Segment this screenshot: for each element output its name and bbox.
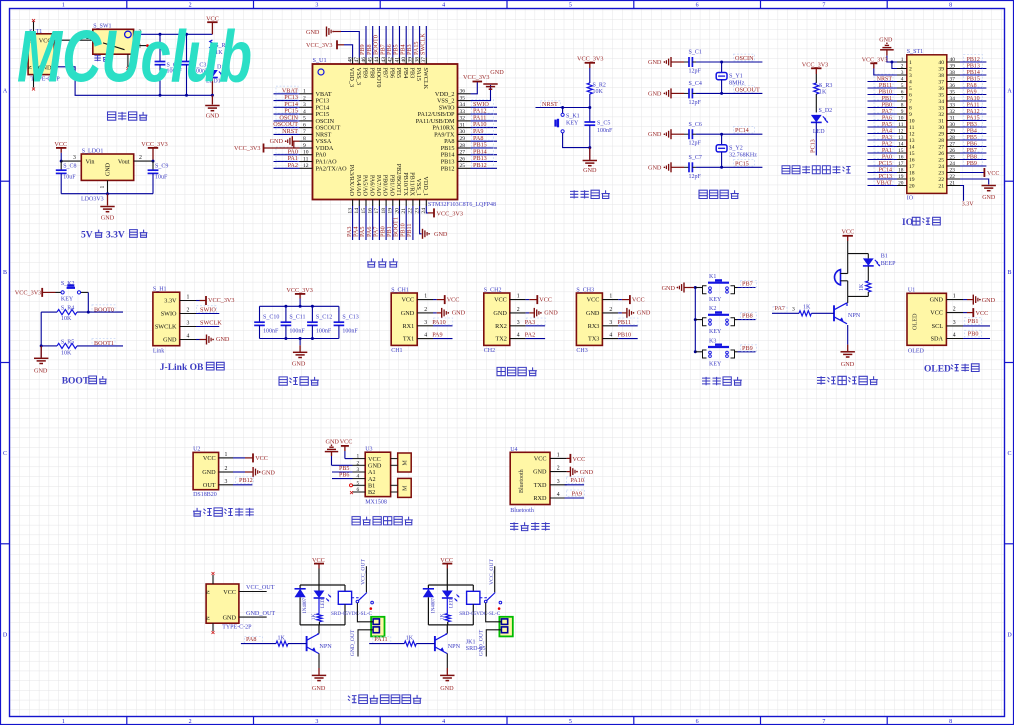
- svg-text:3: 3: [909, 73, 912, 79]
- svg-text:100nF: 100nF: [316, 328, 332, 334]
- svg-text:25: 25: [950, 155, 956, 161]
- svg-text:VCC_3V3: VCC_3V3: [463, 74, 489, 81]
- svg-text:12: 12: [898, 129, 904, 135]
- svg-text:OSCIN: OSCIN: [735, 55, 754, 62]
- svg-text:35: 35: [938, 93, 944, 99]
- svg-text:15: 15: [909, 151, 915, 157]
- svg-text:23: 23: [938, 171, 944, 177]
- svg-text:7: 7: [822, 719, 825, 725]
- svg-text:4: 4: [187, 334, 190, 340]
- svg-text:2: 2: [953, 307, 956, 313]
- svg-text:GND: GND: [101, 215, 115, 222]
- svg-text:S_C11: S_C11: [289, 315, 305, 321]
- svg-text:GND: GND: [583, 167, 597, 174]
- svg-text:35: 35: [460, 95, 466, 101]
- svg-text:41: 41: [394, 57, 400, 63]
- svg-text:N: N: [207, 590, 212, 594]
- svg-text:GND: GND: [223, 615, 237, 622]
- svg-text:100nF: 100nF: [342, 328, 358, 334]
- svg-text:7: 7: [909, 99, 912, 105]
- svg-text:16: 16: [898, 155, 904, 161]
- svg-text:32.768KHz: 32.768KHz: [729, 153, 757, 159]
- svg-text:S_K1: S_K1: [566, 114, 580, 120]
- svg-text:3: 3: [901, 70, 904, 76]
- svg-text:34: 34: [460, 102, 466, 108]
- svg-text:39: 39: [950, 64, 956, 70]
- svg-text:S_CH3: S_CH3: [576, 288, 594, 294]
- svg-text:PA15: PA15: [415, 68, 422, 82]
- svg-text:31: 31: [460, 122, 466, 128]
- svg-text:NRST: NRST: [877, 76, 893, 82]
- svg-text:N: N: [207, 616, 212, 620]
- svg-text:PB1: PB1: [968, 318, 979, 325]
- svg-text:S_CH1: S_CH1: [391, 288, 409, 294]
- svg-text:19: 19: [898, 174, 904, 180]
- svg-text:RX1: RX1: [402, 323, 414, 330]
- svg-text:NPN: NPN: [448, 643, 461, 650]
- svg-text:PC13: PC13: [810, 139, 817, 153]
- svg-text:PB12: PB12: [239, 477, 253, 484]
- svg-text:GND: GND: [493, 310, 507, 317]
- svg-text:NPN: NPN: [319, 643, 332, 650]
- svg-text:PB12: PB12: [473, 162, 487, 169]
- svg-text:PB11: PB11: [879, 83, 892, 89]
- svg-text:TX1: TX1: [403, 336, 414, 343]
- svg-text:PA8: PA8: [246, 636, 256, 643]
- svg-text:DS18B20: DS18B20: [193, 492, 217, 498]
- svg-text:6: 6: [909, 93, 912, 99]
- svg-text:14: 14: [909, 145, 915, 151]
- svg-text:10K: 10K: [61, 350, 72, 356]
- svg-text:PA10: PA10: [570, 477, 584, 484]
- svg-text:6: 6: [357, 487, 360, 493]
- svg-text:1: 1: [62, 3, 65, 9]
- svg-text:25: 25: [938, 158, 944, 164]
- svg-text:19: 19: [909, 177, 915, 183]
- svg-text:PB8: PB8: [368, 68, 375, 79]
- svg-text:33: 33: [950, 103, 956, 109]
- svg-text:VCC_3V3: VCC_3V3: [286, 287, 312, 294]
- svg-text:PA8: PA8: [967, 83, 977, 89]
- svg-text:GND: GND: [434, 231, 448, 238]
- svg-text:OUT: OUT: [203, 482, 216, 489]
- svg-text:LED: LED: [813, 129, 825, 135]
- svg-text:C: C: [3, 451, 7, 457]
- svg-text:VSS_3: VSS_3: [355, 68, 362, 86]
- svg-text:12pF: 12pF: [689, 100, 702, 106]
- svg-text:21: 21: [938, 184, 944, 190]
- svg-text:K2: K2: [709, 306, 716, 312]
- svg-text:RXD: RXD: [533, 495, 547, 502]
- svg-text:PA7/AO: PA7/AO: [375, 175, 382, 197]
- svg-text:4: 4: [303, 109, 306, 115]
- svg-text:SWCLK: SWCLK: [420, 33, 427, 55]
- svg-text:GND: GND: [401, 310, 415, 317]
- svg-text:38: 38: [950, 70, 956, 76]
- svg-text:VCC: VCC: [632, 296, 645, 303]
- svg-text:PB5: PB5: [395, 68, 402, 79]
- svg-text:GND: GND: [982, 195, 996, 201]
- svg-text:3: 3: [557, 479, 560, 485]
- svg-text:PA4: PA4: [882, 128, 892, 134]
- svg-text:SRD-05VDC-SL-C: SRD-05VDC-SL-C: [331, 611, 372, 617]
- svg-text:GND_OUT: GND_OUT: [350, 629, 356, 656]
- svg-text:VCC: VCC: [340, 439, 353, 446]
- svg-text:13: 13: [898, 135, 904, 141]
- svg-text:8MHz: 8MHz: [729, 81, 745, 87]
- svg-text:22: 22: [950, 174, 956, 180]
- svg-text:48: 48: [347, 57, 353, 63]
- svg-text:U2: U2: [193, 446, 200, 452]
- svg-text:VCC_OUT: VCC_OUT: [246, 584, 275, 591]
- svg-text:4: 4: [357, 474, 360, 480]
- svg-text:PB11: PB11: [617, 319, 631, 326]
- svg-text:VCC: VCC: [930, 310, 943, 317]
- svg-text:40: 40: [401, 57, 407, 63]
- svg-text:SDA: SDA: [931, 336, 944, 343]
- svg-text:SWCLK: SWCLK: [422, 68, 429, 90]
- svg-text:2: 2: [424, 307, 427, 313]
- svg-text:PB7: PB7: [742, 281, 753, 288]
- svg-text:PB10/TX: PB10/TX: [402, 172, 409, 196]
- svg-text:26: 26: [460, 156, 466, 162]
- svg-text:Bluetooth: Bluetooth: [510, 508, 534, 514]
- svg-text:3: 3: [187, 321, 190, 327]
- svg-text:PB10: PB10: [879, 89, 892, 95]
- svg-text:S_C10: S_C10: [263, 315, 279, 321]
- svg-text:STM32F103C8T6_LQFP48: STM32F103C8T6_LQFP48: [428, 202, 496, 208]
- svg-text:PA6: PA6: [882, 115, 892, 121]
- svg-text:S_C6: S_C6: [689, 122, 702, 128]
- svg-text:10: 10: [303, 150, 309, 156]
- svg-text:GND: GND: [163, 337, 177, 344]
- svg-text:JK1: JK1: [466, 639, 476, 645]
- svg-text:9: 9: [909, 112, 912, 118]
- svg-text:GND: GND: [648, 59, 662, 66]
- svg-text:29: 29: [460, 136, 466, 142]
- svg-text:38: 38: [938, 73, 944, 79]
- svg-text:GND: GND: [206, 113, 220, 120]
- svg-text:PB0/AO: PB0/AO: [382, 175, 389, 197]
- svg-text:VCC: VCC: [534, 455, 547, 462]
- svg-text:43: 43: [381, 57, 387, 63]
- svg-text:GND: GND: [648, 131, 662, 138]
- svg-text:1K: 1K: [819, 90, 827, 96]
- svg-text:LDO3V3: LDO3V3: [81, 197, 104, 203]
- svg-text:BOOT0: BOOT0: [94, 306, 114, 313]
- svg-text:IO: IO: [907, 196, 914, 202]
- svg-text:18: 18: [898, 168, 904, 174]
- svg-text:J-Link OB: J-Link OB: [160, 363, 204, 373]
- svg-text:GND: GND: [452, 310, 466, 317]
- svg-text:PA7: PA7: [882, 109, 892, 115]
- svg-text:PC13: PC13: [879, 174, 892, 180]
- svg-text:VCC: VCC: [401, 297, 414, 304]
- svg-text:6: 6: [696, 3, 699, 9]
- svg-text:SCL: SCL: [932, 323, 944, 330]
- svg-text:3: 3: [73, 155, 76, 161]
- svg-text:PA5: PA5: [882, 122, 892, 128]
- svg-text:SRD-05: SRD-05: [466, 646, 486, 652]
- svg-text:36: 36: [938, 86, 944, 92]
- svg-text:1: 1: [953, 294, 956, 300]
- svg-text:4: 4: [953, 333, 956, 339]
- svg-text:PA9: PA9: [572, 491, 582, 498]
- svg-text:100nF: 100nF: [289, 328, 305, 334]
- svg-text:6: 6: [901, 90, 904, 96]
- svg-text:Bluetooth: Bluetooth: [519, 469, 525, 493]
- svg-text:PB0: PB0: [968, 331, 979, 338]
- svg-text:PC15: PC15: [879, 161, 892, 167]
- svg-text:1: 1: [357, 454, 360, 460]
- svg-text:28: 28: [460, 143, 466, 149]
- svg-text:BOOT: BOOT: [62, 377, 90, 387]
- svg-text:SWIO: SWIO: [200, 307, 216, 314]
- svg-text:S_C7: S_C7: [689, 155, 702, 161]
- svg-text:PA4/AO: PA4/AO: [355, 175, 362, 197]
- svg-text:VCC: VCC: [494, 297, 507, 304]
- svg-text:5: 5: [303, 116, 306, 122]
- svg-text:47: 47: [354, 57, 360, 63]
- svg-text:K3: K3: [709, 338, 716, 344]
- svg-text:7: 7: [303, 129, 306, 135]
- svg-text:3: 3: [357, 467, 360, 473]
- svg-text:2: 2: [557, 466, 560, 472]
- svg-text:M: M: [403, 460, 409, 466]
- svg-text:VCC_OUT: VCC_OUT: [361, 559, 367, 585]
- svg-text:21: 21: [950, 181, 956, 187]
- svg-text:S_R5: S_R5: [61, 340, 74, 346]
- svg-text:3: 3: [517, 320, 520, 326]
- svg-text:PA12: PA12: [967, 109, 980, 115]
- svg-text:PB1: PB1: [882, 96, 892, 102]
- svg-text:PB4: PB4: [402, 68, 409, 79]
- svg-text:NRST: NRST: [282, 128, 298, 135]
- svg-text:U1: U1: [908, 287, 915, 293]
- svg-text:PB11/RX: PB11/RX: [409, 172, 416, 196]
- svg-text:11: 11: [303, 156, 309, 162]
- svg-text:PA0: PA0: [882, 154, 892, 160]
- svg-text:BEEP: BEEP: [881, 261, 896, 267]
- svg-text:C: C: [1007, 451, 1011, 457]
- svg-text:PB0: PB0: [882, 102, 892, 108]
- svg-text:LED: LED: [449, 598, 454, 608]
- svg-text:KEY: KEY: [61, 297, 74, 303]
- svg-text:1: 1: [100, 186, 106, 189]
- svg-text:PA11: PA11: [967, 102, 980, 108]
- svg-text:30: 30: [460, 129, 466, 135]
- svg-text:PA7: PA7: [775, 305, 785, 312]
- svg-text:8: 8: [303, 136, 306, 142]
- svg-text:GND: GND: [312, 685, 326, 692]
- svg-text:GND: GND: [270, 138, 284, 145]
- svg-text:1K: 1K: [803, 304, 811, 310]
- svg-text:Link: Link: [153, 348, 164, 354]
- svg-text:3: 3: [609, 320, 612, 326]
- svg-text:10: 10: [898, 116, 904, 122]
- svg-text:GND: GND: [202, 469, 216, 476]
- svg-text:S_R2: S_R2: [593, 83, 606, 89]
- svg-text:S_R4: S_R4: [61, 306, 74, 312]
- svg-text:9: 9: [303, 143, 306, 149]
- svg-text:31: 31: [950, 116, 956, 122]
- svg-text:28: 28: [938, 138, 944, 144]
- svg-text:S_H1: S_H1: [153, 286, 167, 292]
- svg-text:U4: U4: [510, 447, 517, 453]
- svg-text:VBAT: VBAT: [876, 180, 892, 186]
- svg-text:Vin: Vin: [86, 159, 95, 166]
- svg-text:PB5: PB5: [339, 466, 349, 472]
- svg-text:40: 40: [938, 60, 944, 66]
- svg-text:37: 37: [938, 80, 944, 86]
- svg-text:12pF: 12pF: [689, 69, 702, 75]
- svg-text:3: 3: [303, 102, 306, 108]
- svg-text:TX2: TX2: [495, 336, 506, 343]
- svg-text:7: 7: [822, 3, 825, 9]
- svg-text:38: 38: [414, 57, 420, 63]
- svg-text:GND: GND: [306, 29, 320, 36]
- svg-text:PC14: PC14: [735, 127, 749, 134]
- svg-text:PB9: PB9: [742, 345, 753, 352]
- svg-text:39: 39: [938, 67, 944, 73]
- svg-text:M: M: [403, 485, 409, 491]
- svg-text:PA6/AO: PA6/AO: [368, 175, 375, 197]
- svg-text:PC14: PC14: [879, 167, 892, 173]
- svg-text:37: 37: [421, 57, 427, 63]
- svg-text:9: 9: [901, 109, 904, 115]
- svg-text:33: 33: [938, 106, 944, 112]
- svg-text:GND: GND: [648, 90, 662, 97]
- svg-text:3.3V: 3.3V: [164, 298, 177, 305]
- svg-text:MX1508: MX1508: [365, 500, 387, 506]
- svg-text:PA11: PA11: [374, 636, 387, 643]
- svg-text:SRD-05VDC-SL-C: SRD-05VDC-SL-C: [459, 611, 500, 617]
- svg-text:KEY: KEY: [709, 297, 722, 303]
- svg-text:BOOT0: BOOT0: [375, 68, 382, 88]
- svg-text:PA2: PA2: [882, 141, 892, 147]
- svg-text:S_C8: S_C8: [63, 164, 76, 170]
- svg-text:3: 3: [424, 320, 427, 326]
- svg-text:1: 1: [187, 295, 190, 301]
- svg-text:5: 5: [901, 83, 904, 89]
- svg-text:A: A: [3, 89, 8, 95]
- svg-text:GND: GND: [637, 310, 651, 317]
- svg-text:S_C1: S_C1: [689, 50, 702, 56]
- svg-text:PA3: PA3: [525, 319, 535, 326]
- svg-text:PB3: PB3: [409, 68, 416, 79]
- svg-text:KEY: KEY: [709, 329, 722, 335]
- svg-text:16: 16: [909, 158, 915, 164]
- svg-text:S_LDO1: S_LDO1: [82, 149, 104, 155]
- svg-text:K1: K1: [709, 274, 716, 280]
- svg-text:34: 34: [950, 96, 956, 102]
- svg-text:32: 32: [460, 116, 466, 122]
- svg-text:VDD_3: VDD_3: [348, 68, 355, 88]
- svg-text:PA3: PA3: [882, 135, 892, 141]
- svg-text:8: 8: [949, 3, 952, 9]
- svg-text:PB13: PB13: [967, 63, 980, 69]
- svg-text:OLED: OLED: [908, 349, 925, 355]
- svg-text:PA10: PA10: [432, 319, 446, 326]
- svg-text:11: 11: [898, 122, 903, 128]
- svg-text:6: 6: [696, 719, 699, 725]
- svg-text:17: 17: [898, 161, 904, 167]
- svg-text:VCC: VCC: [223, 589, 236, 596]
- svg-text:OLED: OLED: [912, 313, 919, 330]
- svg-text:VCC: VCC: [203, 455, 216, 462]
- svg-text:S_U1: S_U1: [313, 57, 327, 64]
- svg-text:1: 1: [901, 57, 904, 63]
- svg-text:PB10: PB10: [617, 332, 631, 339]
- svg-text:GND: GND: [648, 164, 662, 171]
- svg-text:S_C4: S_C4: [689, 81, 702, 87]
- svg-text:PA15: PA15: [967, 115, 980, 121]
- svg-text:17: 17: [909, 164, 915, 170]
- svg-text:KEY: KEY: [709, 361, 722, 367]
- svg-text:22: 22: [938, 177, 944, 183]
- svg-text:VCC_OUT: VCC_OUT: [489, 559, 495, 585]
- svg-text:PA9: PA9: [967, 89, 977, 95]
- svg-text:PB6: PB6: [967, 141, 977, 147]
- svg-text:14: 14: [898, 142, 904, 148]
- svg-text:GND: GND: [544, 310, 558, 317]
- svg-text:A: A: [1007, 89, 1012, 95]
- svg-text:20: 20: [898, 181, 904, 187]
- svg-text:VCC: VCC: [842, 228, 855, 235]
- svg-text:2: 2: [225, 466, 228, 472]
- svg-text:GND: GND: [34, 367, 48, 374]
- svg-text:PB4: PB4: [967, 128, 977, 134]
- svg-text:10: 10: [909, 119, 915, 125]
- svg-text:40: 40: [950, 57, 956, 63]
- svg-text:PA2: PA2: [288, 162, 298, 169]
- svg-text:2: 2: [303, 95, 306, 101]
- svg-text:S_C5: S_C5: [597, 121, 610, 127]
- svg-text:D: D: [1007, 632, 1012, 638]
- svg-text:34: 34: [938, 99, 944, 105]
- svg-text:4: 4: [609, 333, 612, 339]
- svg-text:3: 3: [315, 3, 318, 9]
- svg-text:GND: GND: [879, 38, 893, 44]
- svg-text:VCC: VCC: [587, 297, 600, 304]
- svg-text:LED: LED: [321, 598, 326, 608]
- svg-text:OLED: OLED: [924, 365, 951, 375]
- svg-text:3.3V: 3.3V: [106, 230, 125, 240]
- svg-text:S_ST1: S_ST1: [907, 49, 923, 55]
- svg-text:VCC_3V3: VCC_3V3: [141, 141, 167, 148]
- svg-text:2: 2: [189, 3, 192, 9]
- svg-text:SWCLK: SWCLK: [155, 324, 177, 331]
- svg-text:VCC: VCC: [447, 296, 460, 303]
- svg-text:GND: GND: [662, 285, 676, 292]
- svg-text:VCC: VCC: [573, 456, 586, 463]
- svg-text:5: 5: [569, 719, 572, 725]
- svg-text:PB14: PB14: [967, 70, 980, 76]
- svg-text:TX3: TX3: [588, 336, 599, 343]
- svg-text:D: D: [3, 632, 8, 638]
- svg-text:VCC_3V3: VCC_3V3: [306, 42, 332, 49]
- svg-text:VCC_3V3: VCC_3V3: [577, 56, 603, 63]
- svg-text:1: 1: [62, 719, 65, 725]
- svg-text:PB9: PB9: [967, 161, 977, 167]
- svg-text:CH2: CH2: [484, 348, 495, 354]
- svg-text:PA2: PA2: [525, 332, 535, 339]
- svg-text:36: 36: [460, 89, 466, 95]
- svg-text:35: 35: [950, 90, 956, 96]
- svg-text:VCC: VCC: [255, 455, 268, 462]
- svg-text:8: 8: [949, 719, 952, 725]
- svg-text:1: 1: [303, 89, 306, 95]
